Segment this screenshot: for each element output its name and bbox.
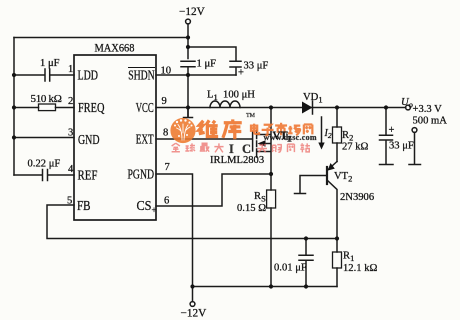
svg-text:VT2: VT2 — [334, 171, 352, 184]
svg-text:RS: RS — [254, 191, 266, 204]
capacitor C4 0.22uF plates — [43, 170, 48, 181]
junction dot (14,137) — [12, 135, 16, 139]
svg-text:8: 8 — [163, 128, 168, 139]
transistor Q2 emitter arrow head — [328, 163, 335, 171]
diode VD1 triangle — [302, 102, 313, 114]
svg-text:4: 4 — [68, 164, 74, 175]
watermark small pink line quan-qiu-zui-da-IC-cai-gou-wang-zhan — [172, 143, 310, 152]
wire EXT pin8 gate lead — [156, 138, 252, 140]
capacitor C6 33uF output — [380, 108, 394, 165]
watermark big text wei-ku — [199, 119, 242, 139]
junction dot (271,286) — [269, 284, 273, 288]
svg-text:−12V: −12V — [181, 308, 208, 320]
junction dot (188,75) — [186, 73, 190, 77]
capacitor C2 1uF (supply, vertical) — [181, 61, 195, 117]
wire RS leads — [270, 174, 272, 287]
wire pin1 LDD net — [14, 74, 74, 76]
svg-text:0.01 μF: 0.01 μF — [274, 263, 307, 274]
wire left bus rail — [13, 38, 15, 176]
watermark medium text dian-zi-shi-chang-wang — [251, 123, 312, 136]
svg-text:33 μF: 33 μF — [244, 61, 269, 72]
wire bottom -12V rail — [193, 286, 338, 288]
watermark — [170, 113, 317, 156]
svg-text:IRLML2803: IRLML2803 — [210, 155, 264, 166]
svg-text:+: + — [389, 125, 395, 136]
svg-text:FB: FB — [77, 198, 91, 213]
svg-text:EXT: EXT — [136, 132, 155, 147]
svg-text:6: 6 — [164, 196, 169, 207]
svg-text:TM: TM — [246, 113, 256, 119]
current arrow I2 shaft — [321, 117, 323, 144]
current arrow I2 head — [318, 143, 324, 150]
svg-text:C: C — [242, 142, 251, 156]
svg-text:2: 2 — [68, 96, 73, 107]
wire SHDN pin10 net — [156, 74, 236, 76]
diode VD1 — [312, 101, 314, 114]
output return terminal — [412, 128, 417, 133]
junction dot (337,238) — [335, 236, 339, 240]
MOSFET VT1 arrow head — [258, 140, 266, 147]
wire pin3 GND net — [14, 137, 74, 139]
svg-text:CS: CS — [137, 198, 152, 213]
wire 33uF branch top — [188, 47, 236, 61]
svg-text:5: 5 — [67, 196, 72, 207]
wire PGND pin7 net — [156, 174, 193, 287]
svg-text:33 μF: 33 μF — [389, 141, 414, 152]
inductor L1 — [210, 101, 240, 108]
svg-text:LDD: LDD — [78, 68, 99, 83]
svg-text:VCC: VCC — [136, 100, 154, 115]
junction dot (306,286) — [304, 284, 308, 288]
svg-text:I: I — [229, 142, 234, 156]
svg-text:1 μF: 1 μF — [197, 59, 217, 70]
wire -12V top terminal lead — [187, 24, 189, 59]
svg-text:3: 3 — [68, 128, 73, 139]
junction dot (271,108) — [269, 105, 273, 109]
watermark logo circle — [170, 118, 195, 143]
svg-text:+3.3 V: +3.3 V — [413, 104, 443, 115]
svg-text:PGND: PGND — [128, 167, 155, 182]
svg-text:10: 10 — [161, 66, 172, 77]
transistor Q1 MOSFET VT1 — [253, 108, 271, 174]
junction dot (14,107) — [12, 105, 16, 109]
wire top rail from left rail to -12V feed — [14, 37, 188, 39]
wire CS+ pin6 net — [156, 174, 271, 206]
svg-text:0.22 μF: 0.22 μF — [28, 159, 61, 170]
wire R2 leads — [336, 108, 338, 162]
svg-text:−12V: −12V — [179, 6, 206, 18]
svg-text:VD1: VD1 — [303, 92, 323, 105]
wire VCC output rail — [156, 107, 406, 109]
junction dot (188,47) — [186, 45, 190, 49]
svg-text:1: 1 — [68, 64, 73, 75]
svg-text:SHDN: SHDN — [128, 68, 155, 83]
svg-text:+: + — [238, 68, 244, 79]
IC U1 MAX668 body — [74, 55, 156, 220]
ground stub at VCC node — [184, 108, 193, 118]
junction dot (306,238) — [304, 236, 308, 240]
resistor R2 body — [333, 127, 342, 143]
junction dot (271,174) — [269, 172, 273, 176]
svg-text:+: + — [152, 205, 157, 215]
output terminal Uo — [406, 105, 411, 110]
resistor R3 510k body — [39, 104, 56, 111]
power -12V bottom terminal — [192, 288, 194, 302]
wire R1 leads — [336, 239, 338, 287]
pin SHDN overline bar — [128, 67, 155, 69]
capacitor C1 1uF plates — [45, 69, 50, 81]
capacitor C3 33uF plates — [230, 61, 241, 75]
svg-text:L1 100 μH: L1 100 μH — [207, 90, 255, 103]
junction dot (14,75) — [12, 73, 16, 77]
resistor RS body — [267, 190, 276, 208]
resistor R1 body — [333, 252, 342, 268]
svg-text:1 μF: 1 μF — [40, 58, 60, 69]
junction dot (188,38) — [186, 35, 190, 39]
power -12V top terminal — [186, 19, 191, 24]
svg-text:510 kΩ: 510 kΩ — [31, 93, 62, 105]
junction dot (188,108) — [186, 105, 190, 109]
wire FB pin5 feedback net — [47, 205, 337, 239]
junction dot (193,286) — [190, 284, 194, 288]
transistor Q2 VT2 body bar — [326, 167, 328, 184]
capacitor C5 0.01uF — [299, 239, 313, 287]
svg-text:27 kΩ: 27 kΩ — [342, 142, 369, 153]
svg-text:REF: REF — [78, 168, 98, 183]
wire pin2 FREQ net — [14, 107, 74, 109]
svg-text:9: 9 — [162, 96, 167, 107]
svg-text:0.15 Ω: 0.15 Ω — [237, 203, 266, 214]
svg-text:GND: GND — [78, 132, 100, 147]
svg-text:12.1 kΩ: 12.1 kΩ — [343, 263, 377, 274]
svg-text:MAX668: MAX668 — [95, 41, 135, 55]
junction dot (386,108) — [384, 105, 388, 109]
transistor Q2 base lead and ground — [295, 176, 328, 194]
svg-text:7: 7 — [165, 162, 170, 173]
junction dot (337,108) — [335, 105, 339, 109]
svg-text:500 mA: 500 mA — [413, 116, 448, 127]
svg-text:R1: R1 — [343, 251, 354, 264]
svg-text:2N3906: 2N3906 — [340, 192, 374, 203]
wire pin4 REF net — [14, 174, 74, 176]
svg-text:FREQ: FREQ — [78, 100, 105, 115]
transistor Q2 emitter/collector — [327, 162, 337, 239]
svg-text:Uo: Uo — [401, 97, 413, 110]
wire return terminal lead and ground bar — [409, 132, 421, 164]
